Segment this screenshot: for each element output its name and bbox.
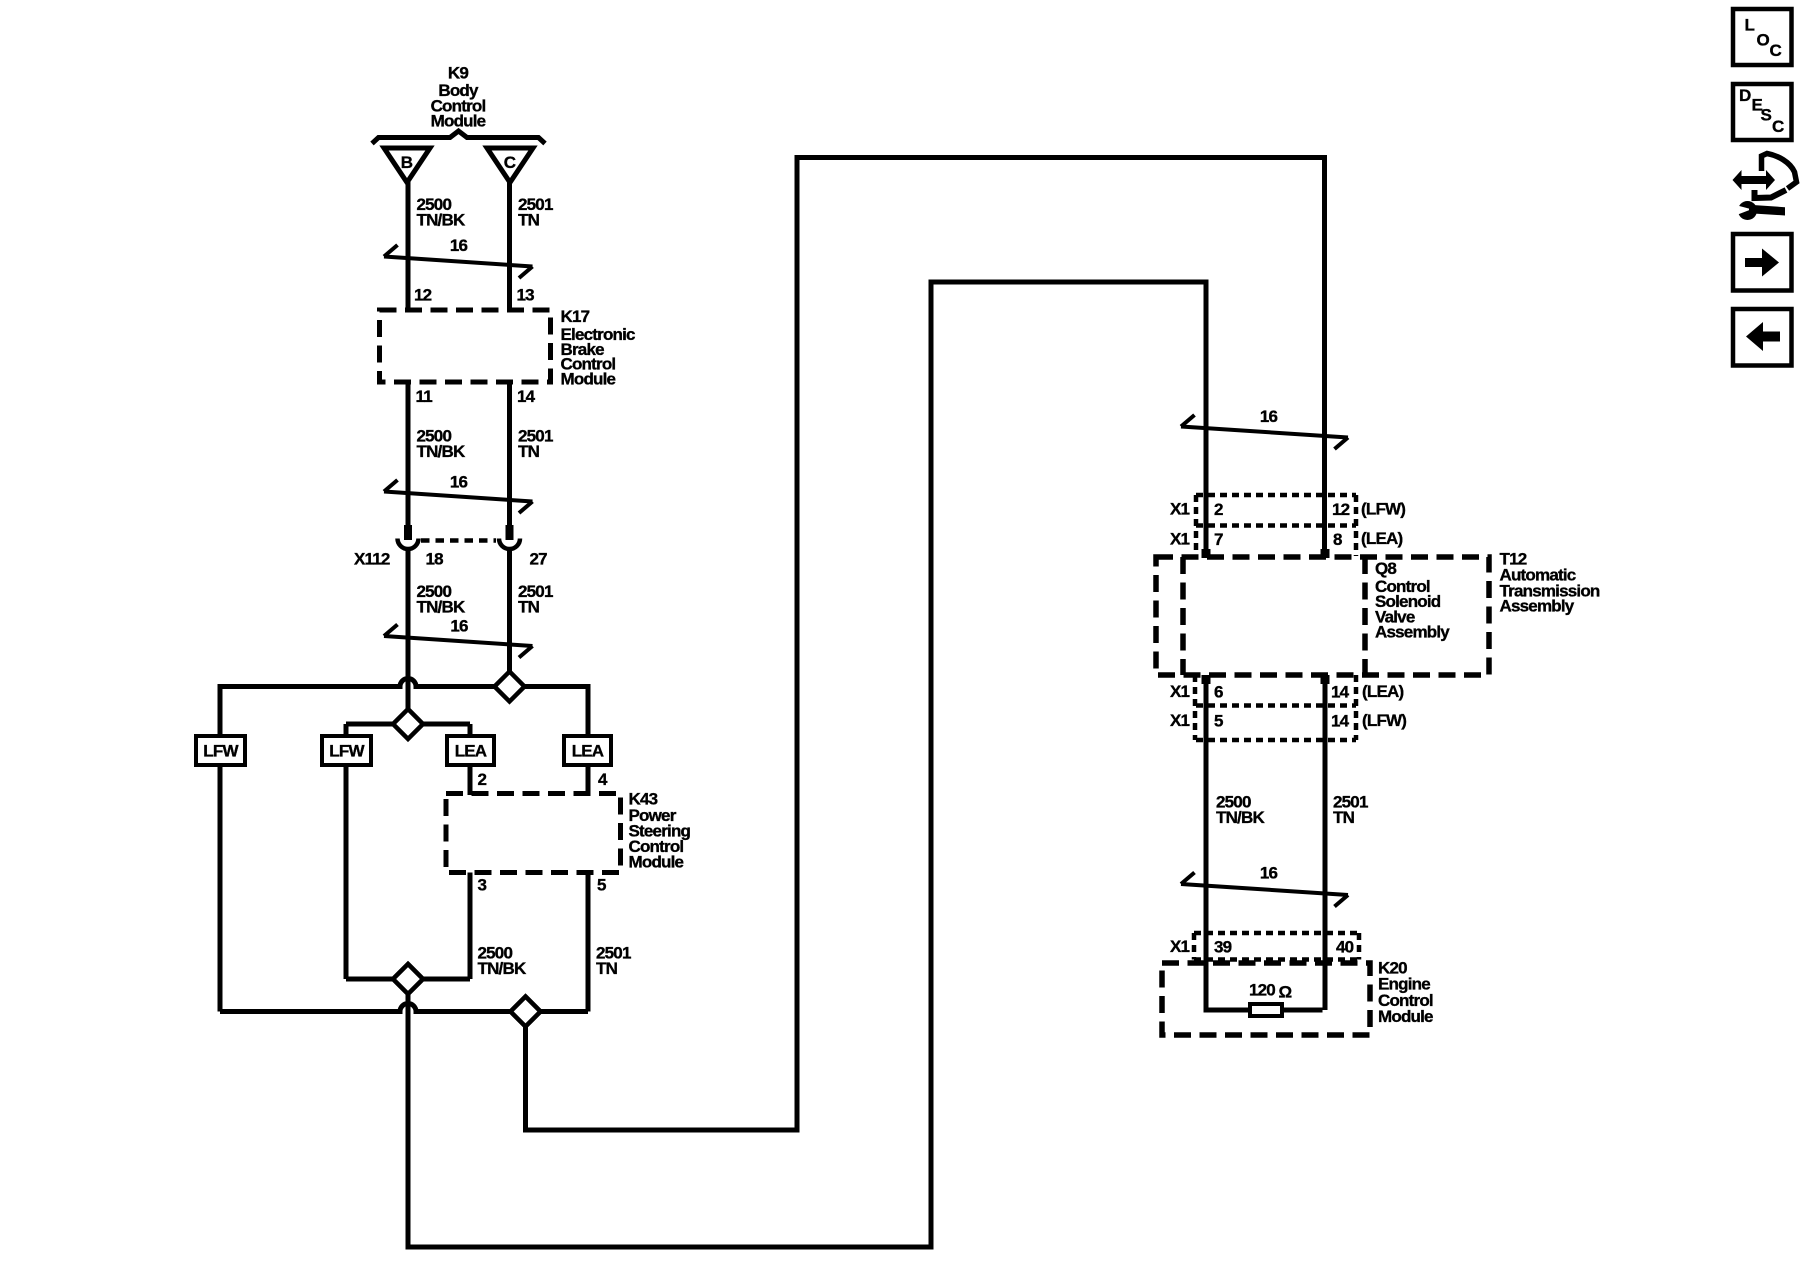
- wire label 2501 TN: [518, 195, 553, 229]
- module K20 Engine Control Module box: [1162, 963, 1370, 1035]
- in-line connector X112: [354, 525, 547, 569]
- svg-text:39: 39: [1214, 938, 1232, 957]
- bus wire 2500 horizontal: [346, 722, 470, 727]
- module label K17 Electronic Brake Control Module: [561, 307, 636, 388]
- wire label 2501 TN: [596, 944, 631, 979]
- splice diamond on 2500: [393, 709, 423, 739]
- module label K43 Power Steering Control Module: [629, 790, 691, 872]
- svg-text:12: 12: [414, 286, 432, 305]
- twisted pair symbol 16 (to T12): [1181, 407, 1348, 449]
- svg-text:S: S: [1761, 106, 1772, 125]
- connector X1 row pins 7/8 (LEA): [1170, 529, 1402, 549]
- svg-text:16: 16: [1260, 864, 1278, 883]
- svg-text:4: 4: [598, 770, 608, 789]
- wire label 2500 TN/BK: [478, 944, 527, 979]
- splice diamond on 2500 (lower, redraw): [393, 964, 423, 994]
- icon box LOC: [1733, 9, 1792, 65]
- svg-text:Module: Module: [629, 853, 684, 872]
- svg-text:7: 7: [1214, 530, 1223, 549]
- svg-text:TN: TN: [596, 959, 618, 978]
- svg-text:TN/BK: TN/BK: [417, 211, 466, 230]
- svg-text:(LFW): (LFW): [1362, 711, 1406, 730]
- svg-text:C: C: [1770, 41, 1782, 60]
- splice diamond on 2501: [495, 672, 525, 702]
- wire terminal blobs below T12: [1202, 675, 1211, 684]
- connector X1 row pins 5/14 (LFW): [1170, 711, 1406, 740]
- svg-text:X1: X1: [1170, 500, 1190, 519]
- splice diamond on 2501 (lower): [511, 997, 541, 1027]
- wire terminal blobs at T12 top: [1202, 549, 1211, 558]
- svg-text:LEA: LEA: [572, 741, 604, 760]
- svg-text:TN/BK: TN/BK: [417, 442, 466, 461]
- bus wire 2501 horizontal with hop over 2500: [220, 679, 588, 687]
- wire label 2501 TN: [518, 582, 553, 617]
- svg-text:(LEA): (LEA): [1362, 682, 1403, 701]
- splice diamond on 2500 (lower): [393, 964, 423, 994]
- icon box back arrow: [1733, 309, 1792, 366]
- wire to LFW (mid): [344, 724, 349, 738]
- svg-text:L: L: [1745, 15, 1755, 34]
- brace for K9 connector: [372, 131, 545, 144]
- svg-text:Module: Module: [1378, 1007, 1433, 1026]
- wire 2501 from X112 to splice: [507, 549, 512, 687]
- connector X1 row pins 6/14 (LEA): [1170, 675, 1403, 740]
- svg-text:D: D: [1739, 86, 1751, 105]
- svg-text:40: 40: [1336, 938, 1354, 957]
- wire 2500 from X112 to splice: [406, 549, 411, 724]
- wire 2500 TN/BK from B to K17 pin 12: [406, 180, 411, 308]
- terminating resistor 120 ohm: [1249, 981, 1292, 1016]
- module label K9 Body Control Module: [431, 64, 486, 131]
- wire LFW2 down: [344, 765, 349, 979]
- svg-text:Ω: Ω: [1279, 983, 1292, 1002]
- module K17 Electronic Brake Control Module box: [380, 310, 551, 382]
- twisted pair symbol 16 (K9 to K17): [384, 236, 533, 278]
- svg-text:11: 11: [416, 387, 433, 406]
- wire 2501 TN from C to K17 pin 13: [507, 180, 512, 308]
- svg-text:LFW: LFW: [329, 741, 365, 760]
- svg-text:Assembly: Assembly: [1500, 597, 1575, 616]
- connector reference LEA (2): [564, 736, 611, 765]
- svg-text:C: C: [1772, 117, 1784, 136]
- icon box forward arrow: [1733, 234, 1792, 291]
- svg-text:12: 12: [1332, 500, 1350, 519]
- wire label 2500 TN/BK: [417, 427, 466, 462]
- icon data link references (arrows and wrench): [1733, 154, 1797, 221]
- svg-text:TN/BK: TN/BK: [478, 959, 527, 978]
- wire 2500 TN/BK from K17 pin 11 to X112: [406, 384, 411, 527]
- svg-text:8: 8: [1333, 530, 1342, 549]
- svg-text:TN/BK: TN/BK: [1216, 808, 1265, 827]
- connector reference LFW (2): [322, 736, 371, 765]
- svg-text:14: 14: [1331, 712, 1350, 731]
- module Q8 Control Solenoid Valve Assembly box: [1180, 557, 1186, 675]
- svg-text:K17: K17: [561, 307, 590, 326]
- wire 2501 TN from K17 pin 14 to X112: [507, 384, 512, 527]
- wire to LEA (right): [586, 684, 591, 738]
- wire LFW1 down: [218, 765, 223, 1012]
- wire 2501 long route to T12: [526, 158, 1325, 1131]
- svg-text:X112: X112: [354, 549, 390, 568]
- svg-text:2: 2: [1214, 500, 1223, 519]
- svg-text:LFW: LFW: [203, 741, 239, 760]
- svg-text:B: B: [401, 153, 413, 172]
- svg-text:5: 5: [1214, 712, 1223, 731]
- svg-text:TN: TN: [518, 598, 540, 617]
- wire K43 pin 5 down: [586, 873, 591, 1012]
- connector reference LEA (1): [447, 736, 494, 765]
- svg-text:16: 16: [450, 617, 468, 636]
- svg-text:TN: TN: [518, 442, 540, 461]
- wire label 2501 TN: [1333, 793, 1368, 828]
- twisted pair symbol 16 (X112 to splices): [384, 617, 533, 658]
- module label K20 Engine Control Module: [1378, 959, 1433, 1026]
- svg-text:X1: X1: [1170, 530, 1190, 549]
- svg-text:16: 16: [450, 473, 468, 492]
- assembly T12 Automatic Transmission box: [1156, 557, 1489, 675]
- svg-text:LEA: LEA: [455, 741, 487, 760]
- svg-text:O: O: [1757, 30, 1770, 49]
- svg-text:TN/BK: TN/BK: [417, 598, 466, 617]
- svg-text:18: 18: [426, 550, 444, 569]
- svg-text:X1: X1: [1170, 711, 1190, 730]
- wire label 2500 TN/BK: [1216, 793, 1265, 828]
- svg-text:(LFW): (LFW): [1361, 500, 1405, 519]
- icon box DESC: [1733, 84, 1792, 140]
- bus wire 2500 lower horizontal: [346, 977, 470, 982]
- wire label 2500 TN/BK: [417, 582, 466, 617]
- assembly label T12 Automatic Transmission Assembly: [1500, 550, 1600, 616]
- wire to LEA (mid): [468, 724, 473, 738]
- wire LEA2 to K43 pin 4: [586, 765, 591, 795]
- wire 2501 TN from T12 to K20: [1323, 675, 1328, 1010]
- svg-text:16: 16: [1260, 407, 1278, 426]
- connector terminal C: [487, 148, 533, 183]
- wire label 2501 TN: [518, 427, 553, 462]
- svg-text:13: 13: [517, 286, 535, 305]
- wire 2500 TN/BK from T12 to K20: [1204, 675, 1209, 1010]
- connector reference LFW (1): [196, 736, 245, 765]
- wire to LFW (left): [218, 684, 223, 738]
- svg-text:TN: TN: [518, 211, 540, 230]
- svg-text:2: 2: [478, 770, 487, 789]
- connector X1 row pins 2/12 (LFW): [1170, 495, 1405, 556]
- svg-text:X1: X1: [1170, 937, 1190, 956]
- wire 2500 long route to T12: [408, 282, 1206, 1247]
- svg-text:27: 27: [530, 550, 548, 569]
- svg-text:3: 3: [478, 876, 487, 895]
- svg-text:5: 5: [597, 876, 606, 895]
- svg-text:C: C: [504, 153, 516, 172]
- twisted pair symbol 16 (to K20): [1181, 864, 1348, 907]
- wire to terminating resistor (left): [1204, 1008, 1209, 1011]
- svg-text:(LEA): (LEA): [1361, 529, 1402, 548]
- wire label 2500 TN/BK: [417, 195, 466, 229]
- svg-text:Module: Module: [561, 369, 616, 388]
- bus wire 2501 lower horizontal with hop over 2500: [220, 1004, 588, 1012]
- svg-text:6: 6: [1214, 683, 1223, 702]
- svg-text:120: 120: [1249, 981, 1275, 1000]
- svg-text:16: 16: [450, 236, 468, 255]
- module label Q8 Control Solenoid Valve Assembly: [1375, 559, 1450, 641]
- wire K43 pin 3 down: [468, 873, 473, 980]
- connector X1 row pins 39/40: [1170, 933, 1359, 960]
- svg-text:Module: Module: [431, 112, 486, 131]
- twisted pair symbol 16 (K17 to X112): [384, 473, 533, 514]
- svg-text:X1: X1: [1170, 682, 1190, 701]
- svg-text:Assembly: Assembly: [1375, 623, 1450, 642]
- wire to terminating resistor (right): [1280, 1008, 1323, 1013]
- svg-text:TN: TN: [1333, 808, 1355, 827]
- connector terminal B: [384, 148, 430, 183]
- svg-text:14: 14: [517, 387, 536, 406]
- svg-text:14: 14: [1331, 683, 1350, 702]
- svg-text:K9: K9: [448, 64, 468, 83]
- svg-text:Q8: Q8: [1375, 559, 1396, 578]
- module K43 Power Steering Control Module box: [446, 794, 621, 873]
- splice diamond on 2501 (lower, redraw): [511, 997, 541, 1027]
- wire LEA1 to K43 pin 2: [468, 765, 473, 795]
